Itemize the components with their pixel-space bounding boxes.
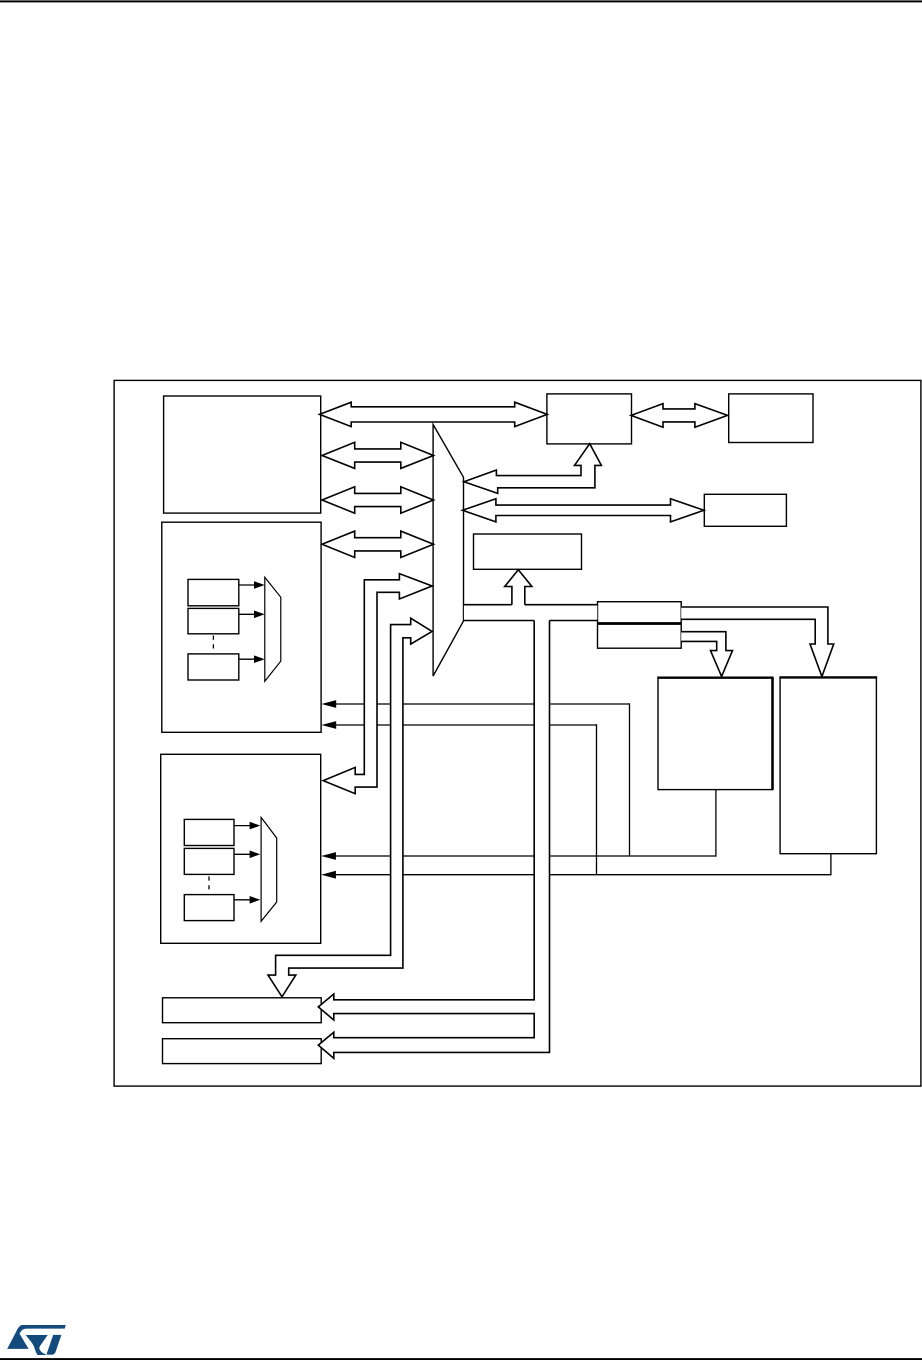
block arrow D1: bridge to tall box 2 — [681, 607, 834, 677]
DMA1 wire ch2 to arbiter — [239, 613, 255, 615]
wire net1 vertical — [629, 703, 631, 856]
DMA2 channel small box 1 — [184, 819, 234, 845]
pipe bottom outline — [464, 620, 597, 622]
block arrow USB to peripheral box (double head) — [631, 404, 727, 428]
wire net2 drop from tall box 2 — [830, 854, 832, 876]
block arrow P and Q union: pipe down to APB thin boxes 1 and 2 — [318, 621, 549, 1059]
arrowhead net2 into DMA1 — [322, 721, 337, 729]
DMA2 channel small box 2 — [184, 848, 234, 874]
tall box 2 thick top edge — [779, 676, 877, 678]
block arrow R4 DMA1 to bus matrix (double head) — [322, 531, 434, 557]
DMA2 wire ch2 to arbiter — [234, 853, 250, 855]
DMA1 arrowhead ch1 — [254, 581, 265, 589]
wire net1 horizontal into DMA1 block — [336, 703, 630, 705]
arrowhead net1 into DMA2 — [321, 852, 336, 860]
ST logo — [7, 1325, 66, 1355]
block arrow V1 bent: bus matrix row5 down to DMA2 (two heads) — [323, 574, 432, 794]
block tall box 1 — [658, 678, 773, 790]
block arrow bus matrix to SRAM (double head) — [463, 499, 705, 522]
block arrow R2 CPU to bus matrix (double head) — [322, 442, 434, 468]
block DMA2 (lower-left) — [161, 754, 321, 943]
wire net2 vertical — [596, 724, 598, 874]
DMA2 wire ch1 to arbiter — [234, 825, 250, 827]
block arrow bent: bus matrix up to USB — [464, 444, 602, 494]
block arrow R3 CPU to bus matrix (double head) — [322, 487, 434, 513]
footer rule — [0, 1358, 922, 1360]
logo S middle wedge and tail — [26, 1335, 48, 1355]
DMA1 arbiter trapezoid — [265, 577, 281, 681]
pipe interior fill — [464, 606, 597, 620]
block arrow V2 bent: bus matrix row6 down around to APB thin box 1 (two heads) — [268, 618, 432, 997]
block FLASH interface (center) — [474, 534, 582, 569]
DMA2 arrowhead ch1 — [250, 822, 261, 830]
DMA1 dashed ellipsis wire — [212, 636, 214, 653]
wire net1 drop from tall box 1 — [715, 789, 717, 856]
DMA1 wire ch3 to arbiter — [239, 658, 255, 660]
DMA2 dashed ellipsis wire — [208, 876, 210, 893]
DMA2 channel small box 3 — [184, 895, 234, 921]
arrowhead net2 into DMA2 — [321, 871, 336, 879]
DMA2 arbiter trapezoid — [261, 817, 277, 921]
DMA2 arrowhead ch3 — [250, 896, 261, 904]
block CPU (top-left) — [164, 396, 321, 513]
DMA1 arrowhead ch2 — [254, 611, 265, 619]
block arrow R1 CPU to USB (double head) — [320, 402, 548, 426]
DMA1 channel small box 2 — [188, 608, 239, 633]
figure frame — [114, 380, 921, 1086]
tall box 1 thick right edge — [771, 677, 774, 790]
DMA2 wire ch3 to arbiter — [234, 899, 250, 901]
pipe top outline — [464, 604, 597, 606]
DMA1 channel small box 1 — [188, 579, 239, 605]
wire net2 horizontal into DMA2 block — [336, 874, 831, 876]
block SRAM (right middle) — [704, 494, 786, 526]
bus matrix trapezoid — [433, 425, 463, 677]
block bridge upper (stacked) — [598, 602, 682, 623]
block USB (top-right 1) — [547, 394, 632, 444]
arrowhead net1 into DMA1 — [322, 700, 337, 708]
DMA1 channel small box 3 — [188, 654, 239, 680]
block tall box 2 — [780, 677, 876, 853]
block bridge lower (stacked) — [598, 624, 682, 648]
logo T slash — [46, 1335, 61, 1355]
DMA1 wire ch1 to arbiter — [239, 584, 255, 586]
logo S band: top bar, left hook and foot — [7, 1325, 66, 1349]
block APB2 thin box (bottom) — [163, 1039, 322, 1064]
wire net2 horizontal into DMA1 block — [336, 724, 597, 726]
block APB1 thin box (bottom) — [163, 998, 322, 1023]
block DMA1 (middle-left) — [162, 522, 321, 732]
block top-right 2 — [729, 394, 813, 443]
block arrow D2: bridge to tall box 1 — [681, 632, 732, 677]
wire net1 horizontal into DMA2 block — [336, 855, 716, 857]
header rule — [0, 0, 922, 2]
block arrow up into FLASH interface box — [505, 570, 532, 605]
DMA1 arrowhead ch3 — [254, 655, 265, 663]
tall box 1 thick top edge — [657, 677, 773, 679]
DMA2 arrowhead ch2 — [250, 851, 261, 859]
